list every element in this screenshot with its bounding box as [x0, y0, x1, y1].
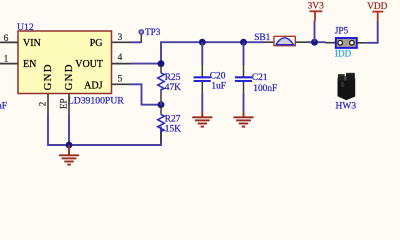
regulator U12 body	[18, 31, 112, 94]
svg-text:6: 6	[4, 34, 9, 44]
header JP5	[325, 38, 367, 48]
svg-text:4: 4	[118, 53, 123, 63]
svg-text:C20: C20	[210, 72, 226, 82]
ground symbol under U12	[59, 145, 79, 165]
svg-text:3: 3	[118, 33, 123, 43]
svg-text:2: 2	[37, 102, 47, 107]
pin 2 lead (GND)	[47, 94, 49, 114]
svg-text:1uF: 1uF	[211, 82, 226, 92]
wire JP5 to VDD	[367, 21, 377, 43]
svg-text:VIN: VIN	[23, 38, 41, 49]
wire 3V3 node up	[314, 21, 316, 43]
junction at ground rail	[66, 142, 73, 149]
svg-text:TP3: TP3	[145, 27, 161, 37]
svg-text:PG: PG	[90, 38, 103, 49]
resistor R25	[158, 66, 165, 105]
junction at C21	[240, 39, 247, 46]
svg-text:SB1: SB1	[254, 33, 270, 43]
ground under C20	[192, 111, 212, 127]
capacitor C21	[235, 42, 252, 111]
junction at 3V3 node	[311, 39, 318, 46]
EP pad lead	[68, 94, 70, 114]
svg-text:47K: 47K	[165, 83, 181, 93]
svg-text:U12: U12	[17, 22, 34, 33]
svg-text:EP: EP	[58, 98, 68, 109]
svg-text:HW3: HW3	[336, 102, 357, 112]
wire SB1 to 3V3 node	[308, 41, 326, 43]
hardware icon HW3	[338, 73, 356, 100]
wire ADJ to divider node	[130, 84, 161, 104]
svg-text:3V3: 3V3	[308, 2, 324, 12]
wire EP down to ground rail	[68, 114, 70, 146]
junction at ADJ node	[158, 101, 165, 108]
svg-text:5: 5	[118, 74, 123, 84]
test point TP3	[139, 30, 144, 35]
svg-text:1: 1	[4, 55, 9, 65]
pin 5 lead (ADJ)	[112, 83, 131, 85]
test point TP3 pin	[140, 35, 142, 43]
svg-text:100nF: 100nF	[253, 84, 277, 94]
pin 1 lead (EN)	[0, 63, 18, 65]
svg-text:JP5: JP5	[335, 26, 349, 36]
wire ground rail to R27 bottom	[69, 127, 161, 146]
svg-text:15K: 15K	[165, 125, 181, 135]
wire VOUT to rail corner	[130, 42, 202, 63]
svg-text:LD39100PUR: LD39100PUR	[68, 96, 125, 107]
svg-text:R25: R25	[165, 73, 181, 83]
junction at VOUT node	[158, 60, 165, 67]
pin 3 lead (PG)	[112, 41, 131, 43]
svg-text:nF: nF	[0, 102, 7, 112]
svg-text:GND: GND	[42, 63, 54, 90]
svg-text:IDD: IDD	[335, 49, 352, 59]
solder bridge SB1	[264, 36, 308, 45]
svg-text:EN: EN	[23, 59, 36, 70]
svg-text:C21: C21	[252, 73, 268, 83]
pin 4 lead (VOUT)	[112, 63, 131, 65]
resistor R27	[158, 107, 165, 146]
power port VDD	[372, 12, 383, 21]
svg-text:R27: R27	[165, 114, 181, 124]
svg-text:VDD: VDD	[367, 2, 388, 12]
junction at C20	[199, 39, 206, 46]
wire rail C21 to SB1	[244, 41, 265, 43]
wire pin2 down to ground rail	[48, 114, 69, 146]
capacitor C20	[194, 42, 211, 111]
wire rail C20 to C21	[202, 41, 243, 43]
svg-text:ADJ: ADJ	[84, 80, 102, 91]
power port 3V3	[309, 11, 322, 20]
pin 6 lead (VIN)	[0, 41, 18, 43]
wire PG to TP3	[130, 41, 141, 43]
ground under C21	[233, 111, 253, 127]
svg-text:VOUT: VOUT	[75, 59, 103, 70]
sheet background	[0, 0, 400, 170]
svg-text:GND: GND	[63, 63, 75, 90]
